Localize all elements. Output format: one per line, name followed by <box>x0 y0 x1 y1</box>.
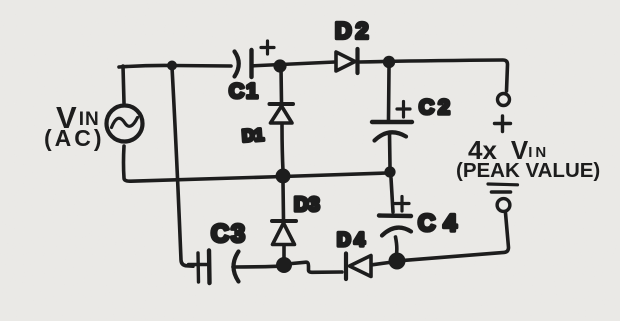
svg-text:C1: C1 <box>229 80 260 103</box>
wire D4 anode to node F <box>372 263 389 265</box>
wire C1 right plate to D2 anode <box>253 62 335 66</box>
node E junction dot (middle rail / D1 / D3) <box>276 169 291 184</box>
svg-text:D1: D1 <box>241 125 264 145</box>
node F junction dot (D4 / C4 / output rail) <box>389 253 406 270</box>
svg-text:C3: C3 <box>211 220 247 248</box>
terminal + output circle <box>498 94 510 106</box>
wire node F to minus terminal <box>405 213 509 260</box>
node B junction dot (C1 / D1 / D2) <box>273 59 286 72</box>
svg-text:D2: D2 <box>335 18 372 44</box>
wire C4 bottom lead down to node F <box>396 237 397 254</box>
wire D1 cathode lead up to node B <box>279 67 283 103</box>
diode D3 <box>272 221 296 245</box>
wire AC source top lead <box>123 66 124 103</box>
capacitor C1 <box>235 41 275 77</box>
svg-text:D3: D3 <box>294 194 320 216</box>
capacitor C3 <box>189 251 239 284</box>
capacitor C2 <box>372 102 412 141</box>
AC source V_IN circle <box>107 106 143 142</box>
diode D1 <box>270 104 294 123</box>
wire top: AC source top to C1 left plate <box>119 65 231 67</box>
wire C2 top lead from node C <box>387 68 391 120</box>
svg-text:(AC): (AC) <box>44 125 105 151</box>
wire C2 bottom lead down to middle rail <box>388 133 392 167</box>
wire D3 cathode lead from middle rail <box>281 182 285 220</box>
wire left vertical from top rail down to C3 <box>172 67 193 266</box>
underline of PEAK <box>488 182 518 186</box>
diode D2 <box>336 49 358 73</box>
AC source sine symbol <box>112 118 138 128</box>
capacitor C4 <box>379 197 411 236</box>
node A junction dot (top rail / left vertical) <box>167 61 177 71</box>
svg-text:C2: C2 <box>419 96 454 119</box>
node G junction dot (D3 / C3 / D4 bottom rail) <box>276 257 292 273</box>
svg-text:C4: C4 <box>418 210 465 237</box>
wire node G to D4 cathode (with jog) <box>292 262 342 272</box>
node C junction dot (D2 / C2 top) <box>383 56 395 68</box>
wire AC source bottom lead and middle rail to C2 bottom <box>124 146 388 181</box>
terminal - output circle <box>497 199 510 212</box>
wire D2 cathode to top-right corner and down to + terminal <box>359 60 508 91</box>
wire C4 top lead from node D <box>391 178 393 212</box>
label + polarity at output <box>495 116 511 132</box>
node D junction dot (middle rail / C2 / C4) <box>384 166 395 177</box>
svg-text:(PEAK VALUE): (PEAK VALUE) <box>456 159 600 182</box>
diode D4 <box>346 254 371 280</box>
label - polarity at output <box>492 190 511 194</box>
wire D3 anode lead down to bottom rail <box>282 246 286 260</box>
wire C3 right plate to node G <box>233 264 276 268</box>
svg-text:D4: D4 <box>337 230 368 251</box>
wire D1 anode lead down to middle rail <box>282 124 283 171</box>
